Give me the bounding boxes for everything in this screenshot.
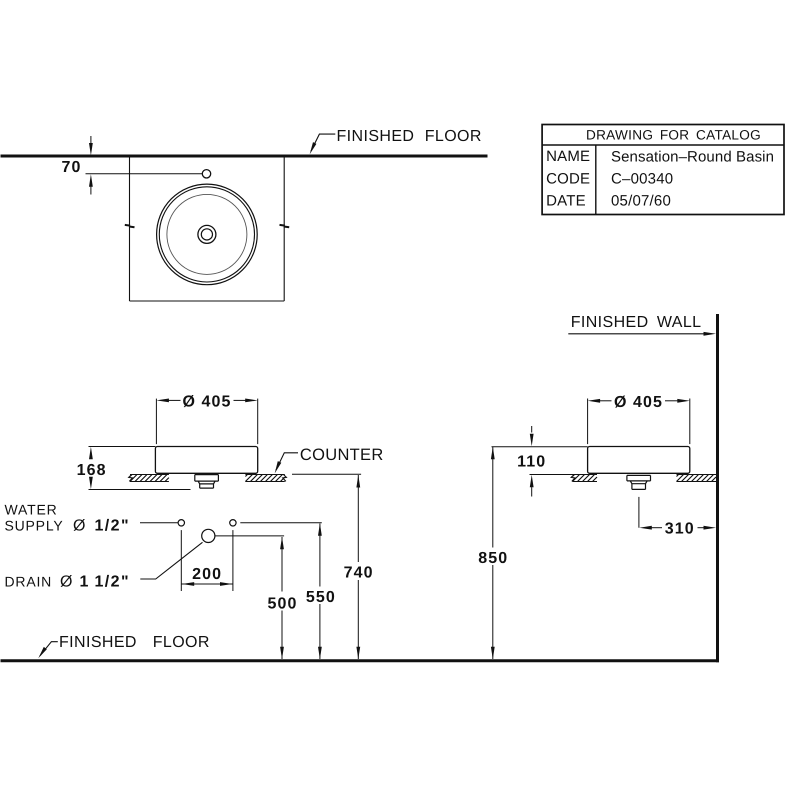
basin top extension line (850/110) xyxy=(492,446,588,448)
drain leader xyxy=(140,542,202,579)
water supply leader line xyxy=(140,522,178,524)
counter leader xyxy=(276,453,298,470)
dim 200 extension lines xyxy=(180,530,182,591)
svg-text:1/2": 1/2" xyxy=(95,573,130,590)
counter hatched section (wall view right piece) xyxy=(677,475,717,482)
break mark left edge xyxy=(125,225,135,227)
dim 405 extension lines (right view) xyxy=(587,399,589,445)
svg-text:SUPPLY: SUPPLY xyxy=(5,518,64,534)
dim 70 extension line xyxy=(86,173,203,175)
counter square right edge xyxy=(283,158,285,302)
dim 500 witness line xyxy=(281,537,283,592)
svg-text:110: 110 xyxy=(517,454,546,471)
finished floor line (plan, thick) xyxy=(1,155,488,158)
dim 405 line + arrows (left view) xyxy=(156,399,169,403)
dim 310 line + arrows xyxy=(639,526,652,530)
leader finished floor top xyxy=(311,134,335,151)
title block header divider xyxy=(542,144,784,146)
basin body (left view) xyxy=(155,447,257,474)
svg-text:70: 70 xyxy=(62,159,82,176)
svg-text:Ø: Ø xyxy=(60,573,72,590)
dim 850 witness line xyxy=(492,447,494,548)
counter square left edge xyxy=(129,158,131,302)
counter top extension to 740 xyxy=(292,473,361,475)
svg-text:CODE: CODE xyxy=(546,170,590,187)
svg-text:740: 740 xyxy=(344,565,374,582)
svg-text:FINISHED FLOOR: FINISHED FLOOR xyxy=(337,128,482,145)
title block column divider xyxy=(595,145,597,215)
finished wall line (thick) xyxy=(716,314,719,662)
svg-text:DATE: DATE xyxy=(546,193,586,210)
counter top extension (110 bottom) xyxy=(530,474,573,476)
svg-text:1: 1 xyxy=(80,573,90,590)
dim 740 witness line xyxy=(357,475,359,562)
dim 168 top extension xyxy=(89,446,156,448)
svg-text:550: 550 xyxy=(306,589,336,606)
drain pipe extension (310) xyxy=(638,497,640,528)
water supply line right segment xyxy=(240,522,321,524)
break mark right edge xyxy=(280,225,290,227)
svg-text:Sensation–Round Basin: Sensation–Round Basin xyxy=(611,148,774,165)
drain hole (left view lower) xyxy=(202,529,215,542)
dim 110 bottom arrow xyxy=(530,475,534,488)
finished floor line (bottom, thick) xyxy=(1,659,720,662)
counter square bottom edge xyxy=(130,300,285,302)
svg-text:850: 850 xyxy=(478,550,508,567)
svg-text:FINISHED WALL: FINISHED WALL xyxy=(571,314,702,331)
drain fitting (left view) xyxy=(195,475,219,489)
counter hatched section (wall view left piece) xyxy=(573,475,598,482)
counter break mark (wall view) xyxy=(571,474,575,481)
drain center line to 500 dim xyxy=(215,535,284,537)
drain (plan, double circle) xyxy=(198,225,216,243)
leader finished floor bottom xyxy=(40,642,58,656)
drain fitting (right view) xyxy=(627,475,651,489)
counter break mark (right end) xyxy=(283,474,287,481)
basin body (right view) xyxy=(588,447,690,474)
water supply hole right xyxy=(230,520,236,526)
faucet hole xyxy=(202,170,210,178)
dim 110 top arrow xyxy=(531,426,533,433)
svg-text:WATER: WATER xyxy=(5,501,58,517)
counter hatched section left piece xyxy=(130,475,169,482)
svg-text:NAME: NAME xyxy=(546,148,590,165)
svg-text:DRAIN: DRAIN xyxy=(5,573,53,589)
dim 200 line + arrows xyxy=(181,583,233,585)
basin outer rim (double circle) xyxy=(157,184,258,285)
dim 168 bottom extension xyxy=(89,489,191,491)
water supply hole left xyxy=(178,520,184,526)
svg-text:DRAWING FOR CATALOG: DRAWING FOR CATALOG xyxy=(586,127,761,142)
svg-text:310: 310 xyxy=(665,520,695,537)
dim 405 line + arrows (right view) xyxy=(588,399,601,403)
counter hatched section right piece xyxy=(245,475,284,482)
svg-text:168: 168 xyxy=(77,462,107,479)
basin inner bowl circle xyxy=(167,194,247,274)
counter break mark (left end) xyxy=(129,474,133,481)
dim 70 witness line + arrows xyxy=(90,136,92,144)
title block outer frame xyxy=(542,125,784,215)
svg-text:500: 500 xyxy=(268,596,298,613)
svg-text:C–00340: C–00340 xyxy=(611,171,673,188)
svg-text:1/2": 1/2" xyxy=(95,518,130,535)
svg-text:Ø: Ø xyxy=(73,518,85,535)
dim 168 arrows xyxy=(89,447,93,460)
finished wall leader line xyxy=(568,333,704,335)
svg-text:COUNTER: COUNTER xyxy=(300,446,384,464)
dim 405 extension lines (left view) xyxy=(155,399,157,445)
svg-text:200: 200 xyxy=(192,566,222,583)
svg-text:05/07/60: 05/07/60 xyxy=(611,193,671,210)
svg-text:Ø 405: Ø 405 xyxy=(614,394,663,411)
svg-text:Ø 405: Ø 405 xyxy=(182,394,231,411)
dim 550 witness line xyxy=(319,524,321,587)
svg-text:FINISHED FLOOR: FINISHED FLOOR xyxy=(59,634,210,651)
